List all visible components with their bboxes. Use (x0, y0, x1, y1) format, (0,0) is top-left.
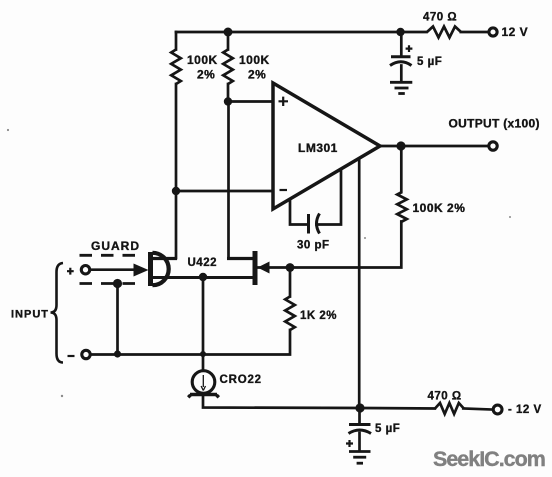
svg-text:U422: U422 (188, 257, 218, 269)
svg-text:SeekIC.com: SeekIC.com (433, 447, 545, 471)
svg-text:12 V: 12 V (502, 25, 529, 39)
svg-text:2%: 2% (197, 68, 215, 82)
svg-text:1K 2%: 1K 2% (300, 310, 337, 322)
svg-text:5 µF: 5 µF (375, 423, 400, 435)
svg-text:INPUT: INPUT (11, 309, 49, 321)
svg-text:OUTPUT (x100): OUTPUT (x100) (449, 117, 540, 131)
svg-text:470 Ω: 470 Ω (423, 12, 457, 24)
svg-text:LM301: LM301 (298, 141, 338, 155)
svg-text:- 12 V: - 12 V (508, 404, 542, 416)
svg-text:GUARD: GUARD (91, 239, 140, 253)
svg-text:100K: 100K (187, 53, 218, 67)
svg-text:100K 2%: 100K 2% (413, 201, 466, 215)
svg-text:2%: 2% (248, 68, 266, 82)
svg-text:30 pF: 30 pF (297, 240, 330, 252)
svg-text:5 µF: 5 µF (417, 56, 442, 68)
svg-text:CRO22: CRO22 (220, 374, 262, 386)
svg-text:470 Ω: 470 Ω (428, 391, 462, 403)
svg-text:100K: 100K (239, 53, 270, 67)
